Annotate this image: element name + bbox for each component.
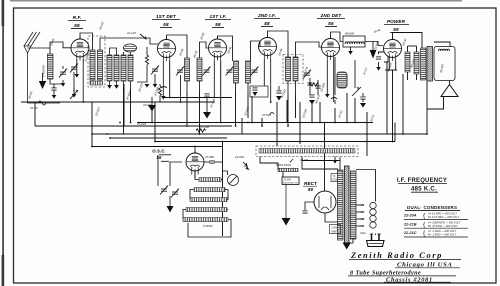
svg-text:59: 59 xyxy=(393,27,399,32)
svg-text:2​ND I.F.: 2​ND I.F. xyxy=(257,13,276,18)
svg-text:POWER: POWER xyxy=(387,19,406,24)
svg-text:ELECTROLYTIC: ELECTROLYTIC xyxy=(283,183,299,185)
svg-text:22-004: 22-004 xyxy=(234,155,244,159)
svg-text:47-234: 47-234 xyxy=(137,122,146,126)
svg-text:58: 58 xyxy=(163,22,169,27)
svg-text:55: 55 xyxy=(328,21,334,26)
svg-text:B= 8.15 MFD — 600 VOLT: B= 8.15 MFD — 600 VOLT xyxy=(428,215,459,219)
svg-text:B= .05 MFD — 600 VOLT: B= .05 MFD — 600 VOLT xyxy=(428,224,458,228)
svg-text:22-21C: 22-21C xyxy=(403,231,417,235)
svg-text:58: 58 xyxy=(264,21,270,26)
svg-text:481: 481 xyxy=(360,203,365,207)
svg-text:47-336: 47-336 xyxy=(200,125,209,129)
svg-text:A= 81 MFD — 600 VOLT: A= 81 MFD — 600 VOLT xyxy=(427,212,457,216)
svg-text:R.F.: R.F. xyxy=(73,15,82,20)
svg-text:46-608: 46-608 xyxy=(345,32,354,36)
svg-text:22-20A: 22-20A xyxy=(403,214,417,218)
svg-text:485 K.C.: 485 K.C. xyxy=(411,187,437,193)
svg-text:1​ST I.F.: 1​ST I.F. xyxy=(209,14,226,19)
svg-text:22-21B: 22-21B xyxy=(403,222,417,226)
svg-text:25AL: 25AL xyxy=(359,231,367,235)
svg-text:5-26TE: 5-26TE xyxy=(203,224,213,228)
svg-text:Chicago Ill USA: Chicago Ill USA xyxy=(397,261,453,268)
svg-text:I.F. FREQUENCY: I.F. FREQUENCY xyxy=(397,178,447,184)
svg-text:A= .2 MFD — 600 VOLT: A= .2 MFD — 600 VOLT xyxy=(427,229,457,233)
svg-text:22-147: 22-147 xyxy=(126,31,136,35)
svg-text:B= .1 MFD — 600 VOLT: B= .1 MFD — 600 VOLT xyxy=(428,233,457,237)
svg-text:47-380: 47-380 xyxy=(205,155,214,159)
svg-text:487: 487 xyxy=(360,210,365,214)
svg-text:8MF: 8MF xyxy=(332,230,338,234)
svg-text:460: 460 xyxy=(360,217,365,221)
svg-text:56: 56 xyxy=(157,155,162,160)
svg-text:O.S.C.: O.S.C. xyxy=(152,149,165,154)
svg-text:1​ST DET: 1​ST DET xyxy=(156,14,177,19)
svg-text:22-40: 22-40 xyxy=(29,106,38,110)
svg-text:58: 58 xyxy=(74,23,80,28)
svg-text:A= .0089 MFD — 600 VOLT: A= .0089 MFD — 600 VOLT xyxy=(427,220,461,224)
svg-text:80: 80 xyxy=(308,187,314,192)
svg-text:2​ND DET: 2​ND DET xyxy=(320,13,343,18)
svg-text:43-272: 43-272 xyxy=(300,158,309,162)
svg-text:DUAL· CONDENSERS: DUAL· CONDENSERS xyxy=(407,205,457,210)
svg-text:RECT: RECT xyxy=(304,181,318,186)
svg-text:CAN: CAN xyxy=(332,226,338,230)
svg-text:Zenith Radio Corp: Zenith Radio Corp xyxy=(350,251,443,260)
svg-text:447: 447 xyxy=(360,224,365,228)
svg-text:22-204: 22-204 xyxy=(283,178,292,181)
svg-text:58: 58 xyxy=(215,22,221,27)
